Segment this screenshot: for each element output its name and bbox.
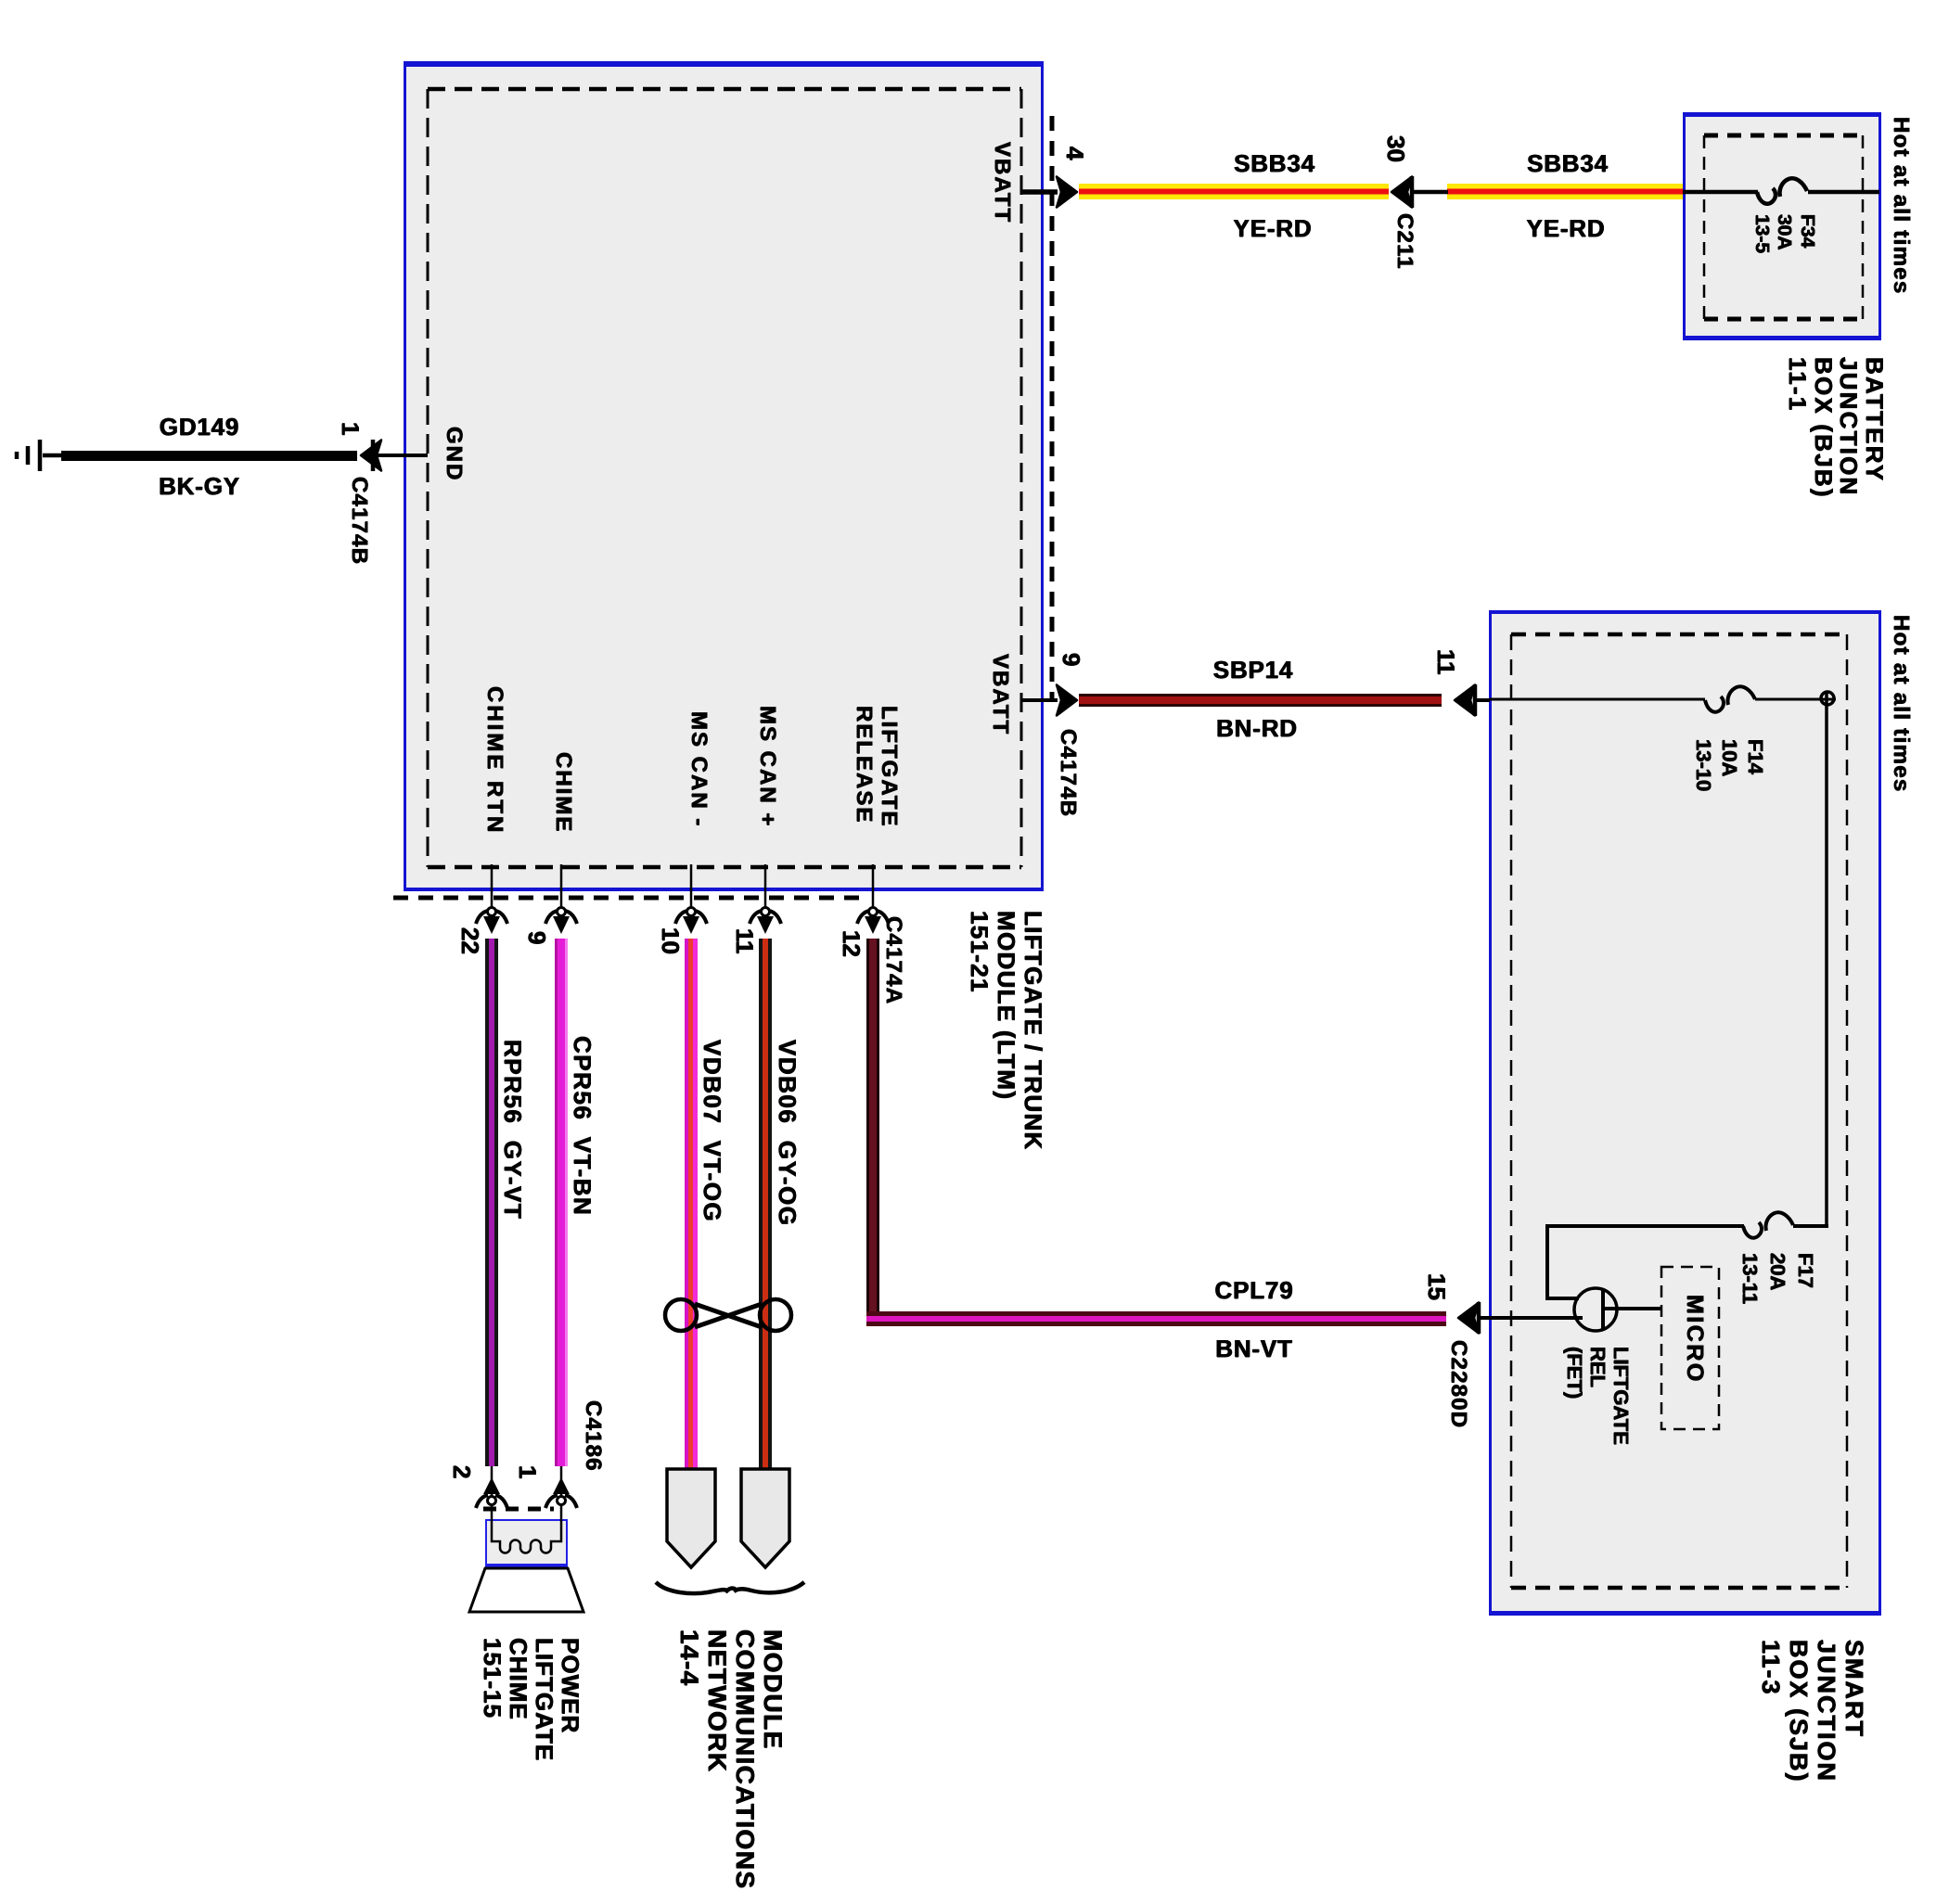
continuation squiggle under off-page connectors <box>656 1582 804 1593</box>
label VBATT pin 4 <box>991 142 1014 224</box>
wire RPR56 GY-VT (pin 22 down to chime pin 2) <box>485 939 498 1466</box>
label LIFTGATE REL (FET) <box>1563 1347 1633 1445</box>
GND stub wire into module <box>375 454 428 457</box>
label POWER LIFTGATE CHIME <box>480 1638 583 1761</box>
label MS CAN - pin name <box>687 711 711 827</box>
label connector C4174B (GND side) <box>348 477 371 565</box>
label pin number 22 <box>457 927 482 954</box>
chime pin 2 connector arrow (up) <box>476 1477 507 1508</box>
wire VDB06 GY-OG (pin 11 down to off-page connector) <box>759 939 772 1469</box>
label pin number 15 <box>1424 1273 1449 1300</box>
wire SBB34 YE-RD segment 2 (C211 to BJB) <box>1447 184 1683 199</box>
SJB internal wire fuse F17 to corner <box>1545 1224 1744 1228</box>
label pin number 4 <box>1062 147 1087 160</box>
wire fuse F14 to junction <box>1755 698 1836 701</box>
label wire SBB34 seg1 <box>1182 151 1367 176</box>
label connector C2280D <box>1447 1340 1470 1428</box>
off-page connector arrow (MS CAN +) <box>741 1469 789 1567</box>
SJB internal wire junction bus to fuse F17 <box>1793 1224 1828 1228</box>
label MICRO <box>1683 1295 1707 1384</box>
wire CPL79 BN-VT horizontal (elbow to SJB pin 15) <box>866 1311 1446 1326</box>
label wire RPR56 GY-VT <box>500 1040 525 1220</box>
battery junction box BJB (blue outline, gray fill) <box>1683 112 1881 340</box>
label pin number 1 (chime) <box>515 1465 540 1478</box>
wire GD149 BK-GY (thick black ground wire) <box>61 451 357 461</box>
label MODULE COMMUNICATIONS NETWORK <box>675 1629 787 1889</box>
smart junction box SJB (blue outline, gray fill) <box>1489 610 1881 1616</box>
label connector C4186 <box>582 1400 605 1472</box>
C211 arrow tick bar <box>1410 176 1415 208</box>
label wire SBP14 <box>1160 658 1346 683</box>
label connector C211 <box>1393 213 1417 270</box>
fuse F14 element <box>1705 686 1755 711</box>
label Hot at all times (BJB) <box>1890 117 1913 295</box>
chime pin 1 stub wire <box>560 1466 563 1521</box>
module LTM box (blue outline, gray fill) <box>404 61 1044 891</box>
module inner dashed connector outline <box>428 89 1021 867</box>
label wire YE-RD seg1 <box>1180 216 1366 241</box>
fuse F34 element <box>1757 178 1807 203</box>
label wire YE-RD seg2 <box>1473 216 1659 241</box>
label pin number 12 <box>839 930 864 957</box>
label CHIME pin name <box>552 752 575 833</box>
label pin number 10 <box>658 927 683 954</box>
pin 11 connector arrow (down) <box>750 908 781 935</box>
wire CPR56 VT-BN (pin 9 down to chime pin 1) <box>555 939 568 1466</box>
chime pin 2 stub wire <box>491 1466 494 1521</box>
wire LIFTGATE RELEASE vertical (pin 12 down to elbow) <box>866 939 879 1313</box>
pin 22 connector arrow (down) <box>476 908 507 935</box>
chime coil element <box>492 1521 561 1553</box>
pin 9 stub wire <box>1021 698 1058 702</box>
transistor LIFTGATE REL (FET) circle <box>1574 1288 1617 1331</box>
SJB internal wire corner down <box>1545 1224 1549 1297</box>
pin 11 arrow tick bar <box>1473 684 1478 716</box>
off-page connector arrow (MS CAN -) <box>667 1469 715 1567</box>
label BATTERY JUNCTION BOX <box>1785 357 1887 499</box>
pin 9 connector arrow <box>1057 685 1077 716</box>
BJB inner dashed fuse outline <box>1704 135 1863 319</box>
wire SBP14 BN-RD (module pin 9 to SJB pin 11) <box>1079 694 1442 707</box>
label VBATT pin 9 <box>989 654 1012 735</box>
fuse F17 element <box>1743 1212 1793 1237</box>
FET gate chord bar <box>1601 1289 1605 1330</box>
label pin number 1 (GND) <box>338 422 363 435</box>
wire FET to MICRO <box>1605 1307 1661 1310</box>
label MS CAN + pin name <box>756 706 779 827</box>
pin 15 arrow tick bar <box>1477 1302 1481 1334</box>
pin 4 stub wire <box>1021 189 1058 195</box>
label wire VDB07 VT-OG <box>699 1040 724 1222</box>
C211 arrow stem wire <box>1414 190 1448 195</box>
label pin number 30 <box>1383 135 1408 162</box>
SJB internal bus wire down from junction <box>1825 692 1828 1226</box>
SJB pin 11 connector arrow <box>1455 685 1475 716</box>
connector C4174A dashed line (below module) <box>393 896 866 901</box>
chime box (blue outline, gray fill) <box>485 1519 568 1568</box>
label wire GD149 <box>107 415 292 440</box>
label wire BK-GY <box>107 474 292 499</box>
label GND pin name <box>442 427 466 481</box>
label wire BN-RD <box>1164 716 1350 741</box>
label fuse F14 value <box>1690 739 1768 791</box>
label wire VDB06 GY-OG <box>775 1040 800 1227</box>
pin 11 arrow stem wire <box>1477 698 1490 702</box>
pin 10 connector arrow (down) <box>675 908 707 935</box>
junction node circle <box>1821 692 1834 705</box>
label pin number 2 (chime) <box>449 1465 474 1478</box>
label wire SBB34 seg2 <box>1475 151 1660 176</box>
C211 connector arrow <box>1391 177 1412 208</box>
pin 4 connector arrow <box>1057 177 1077 208</box>
GND arrow tick bar <box>371 440 376 471</box>
label wire BN-VT <box>1161 1336 1347 1361</box>
SJB inner dashed outline <box>1511 634 1847 1588</box>
twisted pair loop on VDB07 <box>665 1299 697 1331</box>
label LIFTGATE RELEASE pin name <box>852 706 902 828</box>
label SMART JUNCTION BOX <box>1757 1640 1868 1783</box>
label fuse F17 value <box>1736 1253 1819 1304</box>
label fuse F34 value <box>1750 214 1819 253</box>
connector C4186 dashed line (chime) <box>483 1507 554 1512</box>
label LIFTGATE TRUNK MODULE <box>966 911 1046 1151</box>
module bottom pin stub wires (22, 9, 10, 11, 12) <box>492 864 873 908</box>
BJB fuse feed wire right <box>1808 190 1879 195</box>
twisted pair crossover wires <box>695 1304 762 1327</box>
SJB internal wire to fuse F14 <box>1490 698 1705 701</box>
pin 12 connector arrow (down) <box>857 908 889 935</box>
chime pin 1 connector arrow (up) <box>545 1477 577 1508</box>
pin 9 connector arrow (down) <box>545 908 577 935</box>
MICRO dashed box <box>1661 1267 1719 1429</box>
ground symbol G302 <box>17 440 62 471</box>
label wire CPL79 <box>1161 1278 1347 1303</box>
BJB fuse feed wire left <box>1683 190 1758 195</box>
label pin number 9 (bottom) <box>524 931 549 944</box>
chime speaker cone <box>469 1568 583 1612</box>
label connector C4174A <box>882 916 905 1004</box>
connector C4174B dashed line (between pins 4 and 9) <box>1050 116 1055 702</box>
label Hot at all times (SJB) <box>1890 615 1913 793</box>
wire VDB07 VT-OG (pin 10 down to off-page connector) <box>685 939 698 1469</box>
label CHIME RTN pin name <box>483 686 506 835</box>
SJB pin 15 connector arrow <box>1458 1303 1479 1334</box>
SJB internal wire into FET top-left <box>1545 1297 1579 1300</box>
label pin number 11 (bottom) <box>732 928 757 954</box>
label connector C4174B (pin 9 side) <box>1057 729 1080 817</box>
label pin number 11 (SJB) <box>1433 649 1458 675</box>
label pin number 9 <box>1058 653 1083 666</box>
wire pin 15 into FET <box>1481 1316 1583 1320</box>
label wire CPR56 VT-BN <box>570 1036 595 1216</box>
wire SBB34 YE-RD segment 1 (module pin 4 to C211) <box>1079 184 1389 199</box>
twisted pair loop on VDB06 <box>760 1299 791 1331</box>
GND connector arrow (pin 1) <box>361 441 381 471</box>
